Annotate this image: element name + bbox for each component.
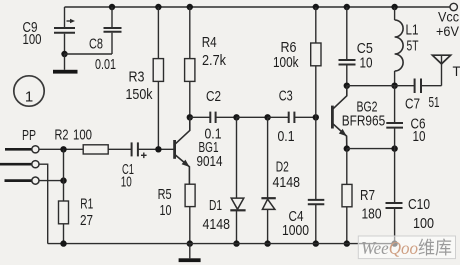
- svg-text:D2: D2: [276, 159, 289, 176]
- wire C3 to BG2 base node: [294, 116, 315, 118]
- node D2 bottom: [264, 240, 270, 246]
- terminal 2: [32, 161, 39, 168]
- inductor L1: [391, 4, 418, 86]
- node D1 top: [233, 114, 239, 120]
- svg-text:10: 10: [413, 128, 426, 145]
- wire tank to C7: [347, 85, 415, 87]
- capacitor C9: [23, 7, 76, 54]
- svg-text:51: 51: [429, 94, 440, 111]
- capacitor C2: [205, 88, 222, 143]
- node R7 bottom: [344, 240, 350, 246]
- svg-text:0.01: 0.01: [95, 56, 116, 73]
- node C10 bottom: [391, 240, 397, 246]
- wire terminal2 down to ground rail: [39, 164, 48, 243]
- circled figure number 1: [14, 76, 44, 106]
- resistor R1: [59, 149, 94, 243]
- svg-text:R1: R1: [80, 196, 93, 213]
- svg-text:10: 10: [121, 174, 132, 191]
- svg-text:0.1: 0.1: [278, 128, 295, 145]
- node R1 top branch: [60, 146, 66, 152]
- node R1 bottom: [60, 240, 66, 246]
- svg-text:R5: R5: [158, 186, 172, 203]
- node BG2 base: [313, 114, 319, 120]
- resistor R5: [158, 184, 196, 243]
- svg-text:D1: D1: [209, 197, 222, 214]
- node R5 bottom: [187, 240, 193, 246]
- wire terminal1 to R2: [39, 148, 83, 150]
- svg-text:2.7k: 2.7k: [202, 52, 226, 69]
- transistor BG1: [175, 117, 223, 184]
- svg-text:C7: C7: [405, 96, 420, 113]
- svg-text:1000: 1000: [282, 222, 309, 239]
- terminal 1: [32, 146, 39, 153]
- capacitor C5: [339, 4, 373, 86]
- resistor R6: [273, 4, 321, 118]
- svg-text:C3: C3: [279, 88, 293, 105]
- svg-text:C8: C8: [89, 36, 103, 53]
- wire C1 to BG1 base: [138, 148, 175, 150]
- svg-text:Vcc: Vcc: [438, 10, 459, 25]
- svg-text:4148: 4148: [203, 216, 231, 233]
- node C9/C8 junction: [61, 51, 67, 57]
- node BG2 emitter: [344, 145, 350, 151]
- svg-text:L1: L1: [406, 22, 419, 39]
- capacitor C4: [282, 117, 324, 243]
- top rail Vcc: [65, 6, 451, 8]
- svg-text:5T: 5T: [407, 38, 419, 55]
- svg-text:R4: R4: [202, 34, 217, 51]
- node BG2 collector / tank: [344, 83, 350, 89]
- svg-text:BFR965: BFR965: [342, 112, 386, 129]
- node R3 bottom / base: [155, 146, 161, 152]
- node BG1 collector: [187, 114, 193, 120]
- node C6/C10: [391, 145, 397, 151]
- diode D2: [261, 117, 300, 243]
- node L1 bottom: [391, 83, 397, 89]
- svg-text:PP: PP: [22, 127, 36, 144]
- terminal 3: [32, 177, 39, 184]
- wire terminal3 to R1 branch: [39, 180, 64, 182]
- wire C2 to D1 node: [216, 116, 237, 118]
- lead 3: [5, 179, 32, 182]
- ground (under C9): [53, 54, 78, 74]
- resistor R7: [342, 149, 382, 244]
- svg-text:10: 10: [160, 202, 172, 219]
- resistor R4: [185, 4, 227, 118]
- Vcc terminal: [450, 3, 457, 10]
- wire D1 node to D2 node: [237, 116, 268, 118]
- bottom ground rail: [48, 243, 395, 245]
- node C4 bottom: [313, 240, 319, 246]
- svg-text:100: 100: [23, 31, 42, 48]
- svg-text:9014: 9014: [197, 153, 223, 170]
- svg-text:4148: 4148: [273, 174, 301, 191]
- svg-text:WeeQoo维库: WeeQoo维库: [361, 238, 452, 258]
- resistor R3: [126, 4, 164, 150]
- svg-text:C2: C2: [206, 88, 221, 105]
- svg-text:100: 100: [413, 215, 434, 232]
- wire collector to C2: [190, 116, 211, 118]
- node D1 bottom: [233, 240, 239, 246]
- svg-text:100: 100: [73, 127, 92, 144]
- lead 1: [5, 148, 32, 151]
- capacitor C6: [386, 86, 425, 149]
- svg-text:10: 10: [360, 55, 373, 72]
- resistor R2: [55, 127, 132, 155]
- capacitor C10: [386, 149, 435, 244]
- ground (main): [179, 244, 201, 262]
- node terminal3 junction: [60, 177, 66, 183]
- wire D2 node to C3: [268, 116, 289, 118]
- node D2 top: [264, 114, 270, 120]
- svg-text:+6V: +6V: [436, 24, 459, 39]
- svg-text:R3: R3: [129, 69, 145, 86]
- watermark box: [358, 236, 455, 259]
- svg-text:T: T: [453, 64, 460, 79]
- svg-text:R7: R7: [360, 187, 375, 204]
- svg-text:27: 27: [80, 212, 93, 229]
- svg-text:R2: R2: [55, 127, 69, 144]
- capacitor C3: [278, 88, 295, 146]
- capacitor C8: [65, 4, 122, 73]
- transistor BG2: [332, 86, 385, 149]
- capacitor C7: [405, 79, 442, 113]
- svg-text:C10: C10: [408, 196, 430, 213]
- svg-text:150k: 150k: [126, 86, 153, 103]
- svg-text:100k: 100k: [273, 54, 299, 71]
- svg-text:180: 180: [362, 205, 382, 222]
- lead 2: [0, 163, 32, 166]
- svg-text:1: 1: [25, 89, 33, 106]
- diode D1: [203, 117, 246, 243]
- wire emitter to C6/C10 node: [347, 148, 395, 150]
- capacitor C1: [121, 142, 147, 190]
- antenna T: [432, 55, 460, 85]
